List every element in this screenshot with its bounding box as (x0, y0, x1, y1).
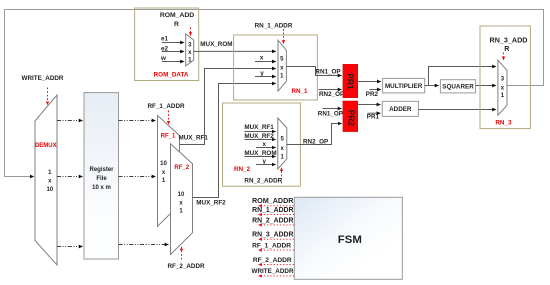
register PR2 (343, 101, 358, 132)
block MULTIPLIER (383, 78, 425, 93)
wire DEMUX to Register File (row 1) (57, 120, 83, 122)
svg-text:WRITE_ADDR: WRITE_ADDR (252, 268, 294, 275)
wire e1 input (162, 42, 184, 44)
wire Register File to RF_1 (row 1) (119, 120, 156, 122)
svg-text:MULTIPLIER: MULTIPLIER (385, 83, 423, 90)
svg-text:RF_2: RF_2 (174, 165, 189, 171)
wire e2 input (162, 51, 184, 53)
mux RN_3 3x1 (498, 60, 507, 115)
mux RF_1 (158, 116, 180, 227)
svg-text:RN1_OP: RN1_OP (318, 111, 343, 118)
block RN_1 (box) (234, 35, 318, 100)
svg-text:WRITE_ADDR: WRITE_ADDR (22, 75, 64, 82)
svg-text:MUX_RF1: MUX_RF1 (179, 135, 209, 142)
wire x stub into RN_2 input 3 (256, 147, 276, 149)
svg-text:DEMUX: DEMUX (35, 143, 57, 149)
register PR1 (343, 64, 358, 97)
block ADDER (382, 101, 418, 116)
wire RN_2_ADDR control (red dashed, upward) (281, 168, 283, 184)
svg-text:y: y (260, 70, 264, 77)
wire feedback loop RN_3 output to DEMUX input (5, 10, 544, 177)
mux ROM 3x1 (186, 34, 194, 66)
wire MULTIPLIER output to SQUARER (425, 85, 439, 87)
demux DEMUX (35, 95, 57, 265)
wire WRITE_ADDR control (red dashed) (47, 88, 49, 105)
svg-text:ROM_DATA: ROM_DATA (154, 72, 189, 79)
mux RF_2 (171, 144, 193, 255)
svg-text:R: R (504, 44, 510, 53)
svg-text:MUX_RF2: MUX_RF2 (244, 133, 274, 140)
svg-text:10: 10 (46, 187, 53, 193)
svg-text:PR1: PR1 (367, 113, 380, 120)
wire RN1_OP stub into PR2 (323, 108, 342, 110)
wire ROM_ADDR control (red dashed) (190, 28, 192, 36)
wire RN_3_ADDR control (red dashed) (503, 53, 505, 61)
svg-text:ADDER: ADDER (389, 106, 412, 113)
wire MUX_ROM: ROM mux output to RN_1 input 1 (194, 50, 276, 52)
wire RN_1_ADDR control from FSM (259, 214, 295, 216)
svg-text:PR2: PR2 (347, 110, 357, 127)
wire SQUARER output to RN_3 input 2 (476, 85, 496, 87)
block FSM (294, 197, 402, 279)
wire RN_3_ADDR control from FSM (259, 238, 295, 240)
wire y into RN_1 input 4 (255, 76, 276, 78)
svg-text:y: y (262, 158, 266, 165)
block ROM_DATA (box) (135, 8, 199, 81)
wire MUX_RF1: RF_1 output to RN_1 input 3 (180, 69, 274, 145)
svg-text:x: x (262, 141, 266, 148)
svg-text:RN_3: RN_3 (495, 120, 512, 127)
wire x into RN_1 input 2 (255, 61, 276, 63)
svg-text:RN_2_ADDR: RN_2_ADDR (244, 177, 282, 184)
wire MULTIPLIER output branch to RN_3 input 1 (429, 67, 492, 86)
svg-text:RN_1_ADDR: RN_1_ADDR (252, 207, 293, 214)
svg-text:ROM_ADDR: ROM_ADDR (252, 196, 294, 205)
wire RN_2_ADDR control from FSM (259, 224, 295, 226)
mux RN_2 5x1 (278, 118, 287, 169)
wire RF_1_ADDR control (red dashed) (168, 111, 170, 125)
register file (84, 93, 119, 259)
svg-text:RN_3_ADDR: RN_3_ADDR (252, 232, 293, 239)
svg-text:RF_1_ADDR: RF_1_ADDR (147, 103, 185, 110)
wire RN_1 output RN1_OP to PR1 (286, 67, 338, 76)
svg-text:PR1: PR1 (345, 73, 355, 90)
wire RF_1_ADDR control from FSM (259, 249, 295, 251)
svg-text:ROM_ADD: ROM_ADD (160, 12, 194, 19)
svg-text:RF_2_ADDR: RF_2_ADDR (167, 263, 205, 270)
svg-text:MUX_RF2: MUX_RF2 (196, 200, 226, 207)
svg-text:RF_1_ADDR: RF_1_ADDR (252, 243, 291, 250)
svg-text:Register: Register (89, 167, 114, 173)
svg-text:RN_2: RN_2 (234, 166, 251, 173)
wire MUX_RF2 stub into RN_2 input 2 (244, 139, 275, 141)
svg-text:FSM: FSM (338, 234, 362, 246)
svg-text:RN_3_ADD: RN_3_ADD (490, 36, 528, 45)
wire RN2_OP stub into PR1 (319, 89, 342, 91)
wire DEMUX to Register File (row 2) (57, 176, 83, 178)
svg-text:File: File (96, 176, 107, 182)
svg-text:RN2_OP: RN2_OP (303, 138, 328, 145)
svg-text:MUX_ROM: MUX_ROM (244, 150, 276, 157)
svg-text:RN_1_ADDR: RN_1_ADDR (255, 22, 293, 29)
wire PR2 stub into MULTIPLIER (370, 89, 381, 91)
svg-text:MUX_ROM: MUX_ROM (200, 41, 232, 48)
svg-text:MUX_RF1: MUX_RF1 (244, 124, 274, 131)
wire PR1 output to MULTIPLIER (358, 81, 381, 83)
wire RF_2_ADDR control from FSM (259, 264, 295, 266)
wire RN_1_ADDR control (red dashed) (283, 29, 285, 44)
wire RF_2_ADDR control (red dashed, upward) (181, 247, 183, 260)
wire MUX_ROM stub into RN_2 input 4 (244, 156, 275, 158)
mux RN_1 5x1 (278, 40, 286, 91)
block SQUARER (440, 80, 475, 93)
svg-text:PR2: PR2 (366, 91, 379, 98)
wire PR2 output to ADDER (358, 104, 381, 106)
wire y stub into RN_2 input 5 (256, 164, 276, 166)
block RN_2 (box) (223, 103, 301, 186)
svg-text:e1: e1 (161, 36, 169, 43)
svg-text:R: R (174, 21, 179, 28)
block RN_3 (box) (480, 26, 530, 129)
wire RN_2 output RN2_OP to PR2 (287, 124, 338, 145)
svg-text:RF_1: RF_1 (161, 134, 176, 140)
svg-text:10: 10 (160, 161, 167, 167)
wire ADDER output to RN_3 input 3 (418, 109, 496, 111)
svg-text:w: w (160, 55, 166, 62)
svg-text:10: 10 (178, 192, 185, 198)
wire ROM_ADDR control from FSM (259, 205, 295, 207)
wire arrow into DEMUX (28, 176, 34, 178)
wire Register File to RF_2 (row 3) (119, 244, 169, 246)
wire DEMUX to Register File (row 3) (57, 246, 83, 248)
svg-text:RN_2_ADDR: RN_2_ADDR (252, 217, 293, 224)
wire w input (162, 61, 184, 63)
svg-text:x: x (260, 54, 264, 61)
wire Register File to RF_1 (row 2) (119, 176, 156, 178)
wire WRITE_ADDR control from FSM (259, 275, 295, 277)
svg-text:RF_2_ADDR: RF_2_ADDR (253, 257, 292, 264)
wire PR1 stub into ADDER (367, 112, 380, 114)
svg-text:SQUARER: SQUARER (442, 84, 474, 91)
wire MUX_RF1 stub into RN_2 input 1 (244, 131, 275, 133)
svg-text:10 x m: 10 x m (92, 185, 111, 191)
svg-text:RN_1: RN_1 (291, 88, 308, 95)
wire MUX_RF2: RF_2 output to RN_1 input 5 (193, 84, 274, 198)
svg-text:RN2_OP: RN2_OP (319, 91, 344, 98)
svg-text:RN1_OP: RN1_OP (315, 68, 340, 75)
